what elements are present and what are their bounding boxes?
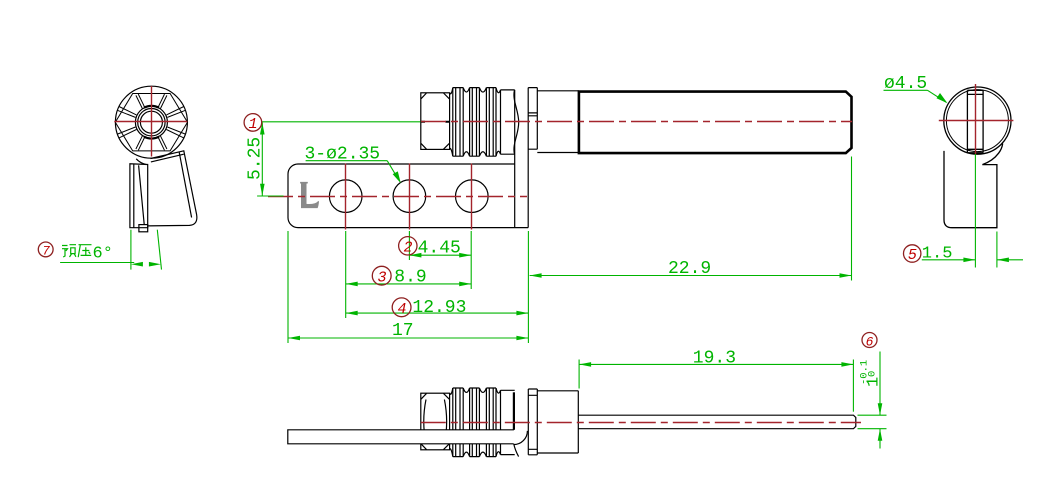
main view red centerline (421, 121, 852, 123)
hole 1 (329, 180, 362, 213)
preload 6deg underline (60, 262, 134, 264)
bottom knurl rib group 3 (486, 388, 496, 457)
extension line x853.4 (852, 360, 854, 412)
svg-text:3: 3 (377, 269, 386, 286)
extension line x471.2 (470, 231, 472, 289)
arrows 1-0.1 (878, 403, 883, 415)
bottom ring band (528, 389, 537, 455)
extension line x288 (287, 231, 289, 343)
svg-text:8.9: 8.9 (394, 268, 426, 288)
knurl rib group 3 (486, 88, 496, 157)
svg-text:1: 1 (248, 116, 257, 133)
extension line x528.4 (527, 231, 529, 343)
bottom break curve below bar (514, 444, 519, 457)
flange outer vertical bottom view (527, 389, 529, 455)
arrows 12.93 (346, 311, 358, 316)
balloon 5 circle (904, 245, 921, 262)
svg-text:-0.1: -0.1 (859, 360, 871, 385)
right view red crosshair vertical (975, 84, 977, 155)
extension line x345.7 (345, 231, 347, 318)
arrows 1.5 (963, 258, 975, 263)
svg-text:17: 17 (392, 321, 414, 341)
hole 2 red vertical (409, 164, 411, 230)
knurl rib group 2 (470, 88, 480, 157)
hex head mid ticks (421, 121, 450, 123)
step band (528, 88, 537, 150)
long cylinder thick outline (579, 92, 852, 154)
svg-text:12.93: 12.93 (412, 298, 466, 318)
hanzi yu-ya (preload) drawn strokes (62, 245, 92, 258)
arm right panel (148, 151, 197, 226)
dim 5.25 vertical line (261, 123, 263, 197)
knob inner circle large (135, 106, 167, 138)
dim 1.5 left line (922, 259, 976, 261)
balloon 2 circle (399, 237, 417, 255)
hex head outline (421, 93, 450, 150)
extension line holes centerline (257, 195, 283, 197)
holes red centerline (268, 196, 527, 198)
balloon 1 circle (244, 114, 262, 132)
svg-text:2: 2 (403, 240, 412, 257)
dim line 12.93 (346, 312, 529, 314)
hole 3 red vertical (471, 164, 473, 230)
arrow dia4.5 (937, 93, 948, 103)
leader line from balloon 1 (262, 121, 421, 123)
arrows (131, 93, 1009, 441)
right view center extension (974, 154, 976, 268)
knurl neck curves (450, 88, 501, 157)
arm notch at knob bottom (136, 159, 146, 165)
dim line 8.9 (346, 283, 472, 285)
knob knurl spokes (117, 94, 185, 150)
arm bottom foot tab (139, 225, 148, 232)
arrow leader 2.35 (392, 171, 401, 183)
svg-text:5: 5 (908, 247, 917, 264)
right view outer circle (944, 87, 1011, 154)
bottom section A (537, 391, 578, 453)
svg-text:4.45: 4.45 (418, 239, 461, 259)
preload 6deg slanted line (157, 230, 161, 270)
extension line x409.4 (408, 231, 410, 260)
svg-text:5.25: 5.25 (246, 137, 266, 180)
svg-text:6°: 6° (93, 245, 113, 264)
knob hexagon (115, 94, 187, 151)
balloon 3 circle (372, 266, 391, 285)
knob inner circle mid (138, 109, 165, 136)
right view red crosshair horizontal (939, 120, 1014, 122)
right view inner circle (946, 90, 1008, 152)
arm right panel top inner edge (151, 154, 184, 162)
knob inner circle small (140, 111, 162, 133)
step band pin hole lines (528, 113, 537, 116)
label 3-d2.35 leader (387, 161, 398, 180)
svg-text:19.3: 19.3 (693, 349, 736, 369)
bottom knurl rib group 2 (470, 388, 480, 457)
dim 1.5 right line (997, 259, 1023, 261)
arrow 5.25 up (260, 123, 265, 135)
left view red crosshair vertical (151, 86, 153, 157)
arm right panel inner slant (179, 152, 191, 217)
slot inner ticks (967, 94, 983, 149)
shaft break S-curve (514, 90, 519, 154)
arm left rectangle (130, 164, 148, 228)
knob outer circle (115, 86, 187, 158)
left view red crosshair horizontal (114, 121, 187, 123)
svg-text:3-ø2.35: 3-ø2.35 (305, 145, 381, 165)
arrows 4.45 (409, 253, 421, 258)
rod end extension bottom (858, 428, 887, 430)
arrows 19.3 (579, 362, 591, 367)
right view fillet curve to circle (982, 144, 1002, 165)
shaft section A (537, 91, 579, 153)
balloon 7 circle (38, 242, 53, 257)
arrows preload (131, 262, 143, 267)
svg-text:ø4.5: ø4.5 (884, 74, 927, 94)
plate outline (288, 164, 528, 228)
dim 1-0.1 vertical lower (879, 429, 881, 449)
rod end extension top (858, 414, 887, 416)
bottom ring notch lines (528, 395, 537, 449)
svg-text:4: 4 (397, 301, 406, 318)
arrows 22.9 (530, 273, 542, 278)
outer bend arc (514, 431, 528, 445)
arm inner slanted edge 6deg (139, 165, 145, 224)
svg-text:22.9: 22.9 (668, 259, 711, 279)
bottom view red centerline (421, 422, 861, 424)
right view edge extension (996, 232, 998, 268)
dim line 22.9 (530, 275, 852, 277)
bottom flat section (501, 390, 515, 454)
bottom hex chamfers (421, 393, 449, 449)
hex head corner chamfers (421, 93, 449, 149)
extension line x579.1 (578, 360, 580, 389)
slot end caps (967, 90, 983, 153)
balloon 4 circle (392, 298, 411, 317)
text 1-0.1 rotated (859, 360, 884, 387)
dim line 4.45 (409, 254, 471, 256)
knurl rib group 1 (453, 88, 463, 157)
flange outer vertical (527, 88, 529, 228)
knurl flat section (501, 90, 515, 154)
svg-text:1.5: 1.5 (922, 245, 953, 264)
bar (plate edge view) white filled (288, 430, 514, 444)
preload 6deg vertical line (130, 230, 132, 270)
extension line x851.5 cylinder end (851, 157, 853, 281)
rod (milled flat) (578, 415, 856, 429)
dia 4.5 underline (884, 89, 928, 91)
bottom knurl neck curves (450, 388, 501, 457)
svg-text:6: 6 (866, 334, 874, 349)
bottom hex head (421, 393, 450, 450)
hole 3 (456, 180, 489, 213)
balloon 6 circle (862, 333, 877, 348)
dim line 19.3 (579, 363, 853, 365)
bar outline (288, 430, 514, 444)
arrow 5.25 down (260, 184, 265, 196)
dim line 17 (288, 337, 528, 339)
hole 1 red vertical (345, 164, 347, 230)
arm inner vertical line (133, 164, 135, 228)
bottom hex face arcs (424, 400, 447, 444)
flange inner thick edge (513, 392, 515, 430)
label 3-d2.35 underline (306, 160, 388, 162)
dia 4.5 leader (928, 90, 947, 102)
arrows 17 (288, 336, 300, 341)
letter L on plate (300, 182, 319, 208)
slot vertical lines (967, 90, 983, 153)
dim 1-0.1 vertical upper (879, 352, 881, 416)
arrows 8.9 (346, 282, 358, 287)
bottom knurl rib group 1 (453, 388, 463, 457)
hole 2 (393, 180, 426, 213)
flange inner vertical (514, 90, 516, 228)
svg-text:7: 7 (42, 244, 50, 259)
right view body (944, 151, 997, 228)
knob hub dark arcs (144, 106, 159, 139)
